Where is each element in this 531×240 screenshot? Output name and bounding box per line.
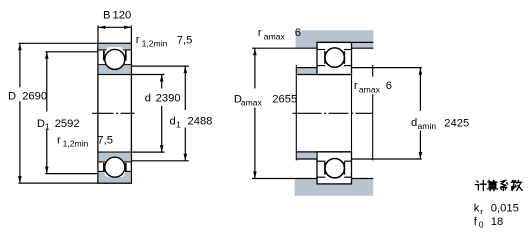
svg-text:1: 1 [176,120,181,130]
dimension D: up arrowhead [18,43,22,50]
outer ring band top [99,44,131,50]
dimension d1: extension lines [131,65,188,67]
svg-text:D: D [8,91,16,103]
svg-text:2488: 2488 [188,116,213,128]
dimension d1: down arrowhead [184,154,188,161]
svg-text:amax: amax [241,98,263,108]
bearing right face reference line (r_amax) [351,75,353,152]
outer ring inner line upper (right segment) [344,49,351,51]
inner ring band top [99,65,131,74]
ball top [105,49,125,69]
svg-text:1,2min: 1,2min [63,139,89,149]
bore line lower (shaft seat) [296,151,351,153]
ball upper right view [325,48,344,67]
outer ring band bottom [99,172,131,182]
shaft face vertical left [295,65,297,161]
dimension d: down arrowhead [160,145,164,152]
svg-text:amax: amax [359,84,381,94]
dimension B: dimension line [98,26,131,28]
outer ring inner line lower (left segment) [317,176,325,178]
ball pocket side bars bottom [103,163,105,172]
shaft body shading [295,179,374,196]
ball pocket side bars upper right view [324,51,326,64]
svg-text:2592: 2592 [55,118,80,130]
housing shoulder line left [252,47,317,49]
ball pocket notch bottom (in outer ring band) [105,170,125,177]
housing shoulder line right [352,47,374,49]
dimension D: down arrowhead [18,176,22,183]
dimension Da: down arrowhead [253,172,257,179]
bearing outline box [98,43,131,183]
svg-text:B: B [103,9,110,21]
bearing box lower [317,152,352,184]
dimension da: up arrowhead [419,68,423,75]
svg-text:r: r [354,80,358,92]
svg-text:0: 0 [479,220,484,230]
inner ring top line upper (right segment) [344,65,351,67]
dimension B: left arrowhead [98,26,105,29]
svg-text:2690: 2690 [22,91,47,103]
svg-text:r: r [258,27,262,39]
dimension B: right arrowhead [124,26,131,29]
inner ring top line upper (left segment) [317,65,325,67]
dimension Da: up arrowhead [253,48,257,55]
dimension D1: extension lines [45,51,98,53]
ball bottom [105,157,125,177]
inner ring shoulder line top [99,64,131,66]
inner ring bottom line lower (left segment) [317,160,325,162]
inner ring band bottom [99,153,131,162]
inner ring shoulder line bottom [99,161,131,163]
inner ring bottom line lower (right segment) [344,160,351,162]
housing block shading [296,30,374,48]
svg-text:1: 1 [45,121,50,131]
shaft shoulder bottom line lower-left [296,158,317,160]
outer ring inner line bottom [99,170,131,172]
bearing box upper [317,42,352,74]
svg-text:amin: amin [418,121,437,131]
char xi [500,180,507,190]
svg-text:0,015: 0,015 [491,203,519,215]
svg-text:amax: amax [264,32,286,42]
housing bore line [317,41,373,43]
ball pocket side bars lower right view [324,162,326,175]
dimension d1: dimension line (interrupted by text) [184,66,186,110]
char ji [475,180,486,190]
dimension D: dimension line (interrupted by text) [19,43,21,87]
char suan [487,180,497,191]
svg-text:2425: 2425 [444,118,469,130]
centerline right view [293,112,374,114]
dimension da: extension line bottom [352,158,422,160]
svg-text:18: 18 [491,216,503,228]
heading (Chinese): calculated factors [475,180,522,191]
svg-text:1,2min: 1,2min [142,39,168,49]
svg-text:r: r [57,134,61,146]
char shu [511,180,522,190]
ball pocket notch top (in outer ring band) [106,47,124,51]
svg-text:6: 6 [295,27,301,39]
svg-text:d: d [145,93,151,105]
dimension D: extension lines [18,42,98,44]
svg-text:2655: 2655 [272,93,297,105]
shoulder face vertical right (interrupted by r_amax label) [372,65,374,77]
svg-text:k: k [474,203,480,215]
dimension D1: dimension line (interrupted by text) [46,52,48,112]
dimension d1: up arrowhead [184,66,188,73]
svg-text:7,5: 7,5 [97,134,113,146]
ball pocket side bars top [103,51,105,61]
dimension d: up arrowhead [160,75,164,82]
outer ring inner line upper (left segment) [317,49,325,51]
shaft surface line right [352,178,374,180]
svg-text:7,5: 7,5 [177,34,193,46]
svg-text:6: 6 [386,80,392,92]
centerline left view [92,112,135,114]
outer ring inner line top [99,49,131,51]
svg-text:120: 120 [113,9,132,21]
dimension Da: dimension line (interrupted by text) [254,48,256,88]
dimension da: extension line top [352,67,422,69]
bore line upper (shaft seat) [296,74,351,76]
shaft surface line left [252,178,317,180]
ball lower right view [325,159,344,178]
svg-text:D: D [37,118,45,130]
shaft shoulder band upper-left [297,68,317,74]
svg-text:r: r [480,206,483,216]
svg-text:2390: 2390 [156,93,181,105]
svg-text:d: d [411,117,417,129]
dimension D1: down arrowhead [45,167,49,174]
dimension d: extension lines [131,74,164,76]
shaft shoulder top line upper-left [296,67,317,69]
dimension da: dimension line (interrupted by text) [419,68,421,111]
svg-text:d: d [170,116,176,128]
bore line bottom section [98,151,131,153]
dimension da: down arrowhead [419,152,423,159]
outer ring inner line lower (right segment) [344,176,351,178]
dimension B: extension lines [97,25,99,43]
dimension d: dimension line (interrupted by text) [161,75,163,89]
dimension D1: up arrowhead [45,52,49,59]
bore line top [98,74,131,76]
svg-text:r: r [136,34,140,46]
shaft shoulder band lower-left [297,153,317,159]
